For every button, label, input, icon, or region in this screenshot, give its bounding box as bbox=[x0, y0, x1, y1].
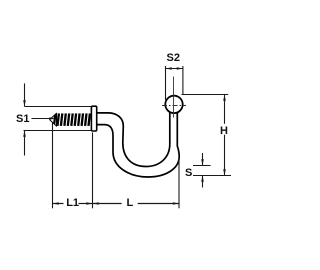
L dimension line bbox=[93, 202, 180, 205]
svg-text:H: H bbox=[220, 125, 228, 137]
ball center line horizontal dashed bbox=[162, 105, 186, 107]
ball center line vertical bbox=[173, 77, 175, 118]
ball end bbox=[165, 96, 182, 113]
svg-text:S: S bbox=[185, 167, 192, 179]
hook wire body bbox=[97, 113, 180, 178]
S lower extension line bbox=[193, 175, 231, 177]
S1 lower extension line bbox=[24, 130, 92, 132]
L right extension line bbox=[178, 158, 180, 208]
collar bbox=[91, 106, 96, 131]
svg-text:S1: S1 bbox=[16, 113, 29, 125]
S1 upper extension line bbox=[25, 106, 92, 108]
L1 left extension line bbox=[52, 122, 54, 208]
svg-text:S2: S2 bbox=[167, 52, 180, 64]
screw tip cone bbox=[50, 113, 57, 126]
screw threads bbox=[54, 113, 90, 126]
S2 right extension line bbox=[182, 66, 184, 95]
S1 dimension line lower with arrow bbox=[23, 131, 26, 156]
S dimension arrows bbox=[201, 153, 204, 188]
S2 dimension line with arrows bbox=[166, 67, 183, 70]
L1/L shared extension line bbox=[92, 133, 94, 209]
S1 dimension line upper with arrow bbox=[23, 83, 26, 106]
H dimension line bbox=[223, 95, 226, 176]
svg-text:L1: L1 bbox=[66, 197, 79, 209]
S upper extension line bbox=[193, 165, 211, 167]
H top extension line bbox=[182, 94, 229, 96]
svg-text:L: L bbox=[127, 197, 134, 209]
L1 dimension line bbox=[53, 202, 93, 205]
S2 left extension line bbox=[165, 66, 167, 100]
S1 leader arrow bbox=[32, 117, 56, 120]
